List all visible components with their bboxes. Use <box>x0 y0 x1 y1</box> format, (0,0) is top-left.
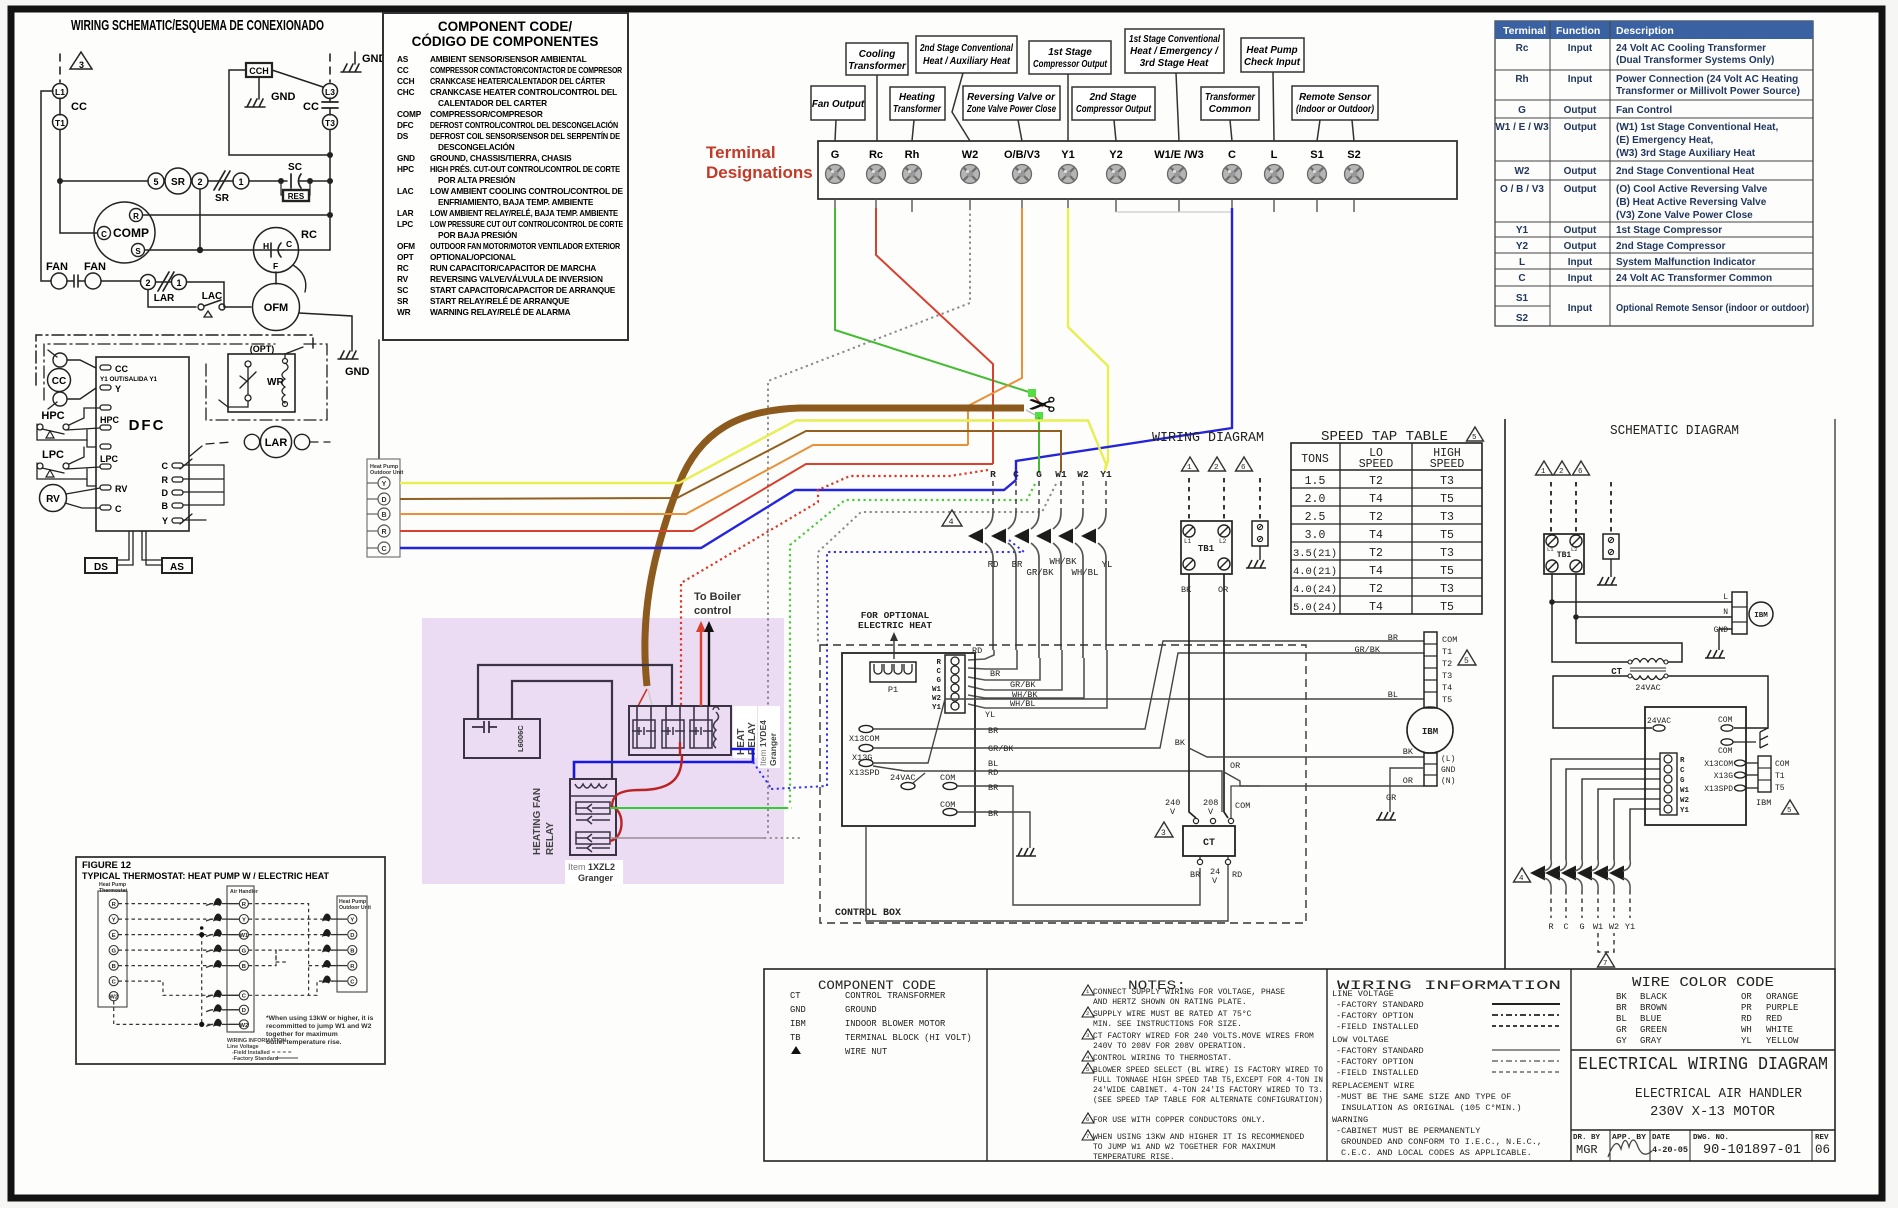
svg-text:RD: RD <box>972 646 982 656</box>
svg-text:B: B <box>242 964 246 970</box>
svg-text:Output: Output <box>1564 105 1597 116</box>
svg-text:W2: W2 <box>1609 922 1619 932</box>
svg-text:FIGURE 12: FIGURE 12 <box>82 860 131 871</box>
svg-text:COMPRESSOR/COMPRESOR: COMPRESSOR/COMPRESOR <box>430 109 543 119</box>
svg-text:Compressor Output: Compressor Output <box>1076 104 1152 115</box>
svg-text:together for maximum: together for maximum <box>266 1031 338 1038</box>
LAR contact 2 <box>141 275 156 290</box>
svg-text:BR: BR <box>1012 560 1023 570</box>
svg-text:OR: OR <box>1218 585 1228 595</box>
s pin W2 <box>1664 795 1672 803</box>
table outer border <box>1495 21 1813 326</box>
svg-text:-MUST BE THE SAME SIZE AND TYP: -MUST BE THE SAME SIZE AND TYPE OF <box>1336 1092 1511 1102</box>
svg-text:Y: Y <box>112 918 116 924</box>
svg-text:6: 6 <box>1578 468 1583 476</box>
svg-text:BLUE: BLUE <box>1640 1014 1662 1024</box>
svg-text:BLACK: BLACK <box>1640 992 1668 1002</box>
svg-text:CT: CT <box>790 991 801 1001</box>
svg-text:RD: RD <box>1741 1014 1752 1024</box>
wire nut C <box>991 512 1016 650</box>
dash-dot boundary outer <box>36 335 313 385</box>
svg-text:T3: T3 <box>1440 475 1454 488</box>
dashed feed sL2 <box>1575 482 1577 533</box>
svg-text:T1: T1 <box>55 118 65 128</box>
junction trunk CCH <box>327 152 333 158</box>
bottom table outer border <box>764 969 1835 1161</box>
control ground <box>1016 848 1036 856</box>
green wire from fan relay <box>610 807 786 809</box>
CCH left loop wire <box>229 70 330 155</box>
heat relay pins <box>637 706 708 720</box>
svg-text:Remote Sensor: Remote Sensor <box>1299 92 1372 103</box>
svg-text:RV: RV <box>397 274 409 284</box>
BK feed line <box>1189 574 1196 818</box>
svg-text:COM: COM <box>940 773 955 783</box>
HPOU terminal D <box>378 493 390 505</box>
svg-text:YELLOW: YELLOW <box>1766 1036 1799 1046</box>
dashed diagonal from C pin <box>190 446 202 456</box>
svg-text:Transformer: Transformer <box>848 61 907 72</box>
WR contact <box>245 361 251 367</box>
svg-text:T2: T2 <box>1369 547 1383 560</box>
figure 12 outer box <box>76 857 385 1064</box>
svg-text:T5: T5 <box>1442 695 1452 705</box>
svg-text:WR: WR <box>397 307 411 317</box>
svg-text:1st Stage Conventional: 1st Stage Conventional <box>1129 34 1220 45</box>
CCH ground <box>245 99 265 107</box>
svg-text:REV: REV <box>1815 1134 1829 1142</box>
DFC pin hpc1 <box>100 405 111 410</box>
svg-text:CT FACTORY WIRED FOR 240 VOLTS: CT FACTORY WIRED FOR 240 VOLTS.MOVE WIRE… <box>1093 1032 1314 1041</box>
svg-text:2: 2 <box>1214 464 1219 472</box>
svg-text:Input: Input <box>1568 257 1593 268</box>
svg-text:GND: GND <box>790 1005 806 1015</box>
dash-dot WR enclosure <box>206 344 327 420</box>
svg-text:LINE VOLTAGE: LINE VOLTAGE <box>1332 989 1394 999</box>
svg-text:WARNING: WARNING <box>1332 1115 1368 1125</box>
control board box s <box>1645 707 1746 825</box>
blue wire heat relay to fan relay <box>574 749 753 779</box>
lead 1st stage compressor <box>1067 74 1069 141</box>
svg-text:(OPT): (OPT) <box>250 344 275 354</box>
gray dotted continuation <box>764 837 800 839</box>
svg-text:E: E <box>112 933 116 939</box>
WR bottom wire <box>219 400 248 407</box>
svg-text:OR: OR <box>1403 776 1413 786</box>
svg-text:TB1: TB1 <box>1198 544 1215 554</box>
svg-text:WARNING RELAY/RELÉ DE ALARMA: WARNING RELAY/RELÉ DE ALARMA <box>430 307 571 317</box>
svg-text:H: H <box>263 241 269 251</box>
svg-text:Y: Y <box>162 516 168 526</box>
junction trunk SR row <box>327 178 333 184</box>
svg-text:X13SPD: X13SPD <box>1704 785 1733 794</box>
svg-text:WHITE: WHITE <box>1766 1025 1793 1035</box>
field wire gray dotted to W1 <box>818 484 1056 645</box>
note triangle 7 <box>1082 1130 1094 1140</box>
svg-text:BR: BR <box>990 669 1000 679</box>
IBM connector block s <box>1758 756 1771 792</box>
24VAC link <box>913 773 925 783</box>
chassis ground s <box>1760 728 1768 748</box>
svg-text:OUTDOOR FAN MOTOR/MOTOR VENTIL: OUTDOOR FAN MOTOR/MOTOR VENTILADOR EXTER… <box>430 241 620 251</box>
svg-text:CT: CT <box>1203 838 1215 849</box>
svg-text:T3: T3 <box>1440 583 1454 596</box>
HPOU terminal C <box>378 542 390 554</box>
svg-text:Check Input: Check Input <box>1244 57 1301 68</box>
screw Rc <box>867 165 886 184</box>
wire fan to LAR <box>101 280 140 282</box>
fig wire Y <box>119 918 214 920</box>
svg-text:R: R <box>1548 922 1553 932</box>
sTB1 screw b1 <box>1546 560 1558 572</box>
s ground block <box>1603 534 1619 559</box>
line voltage option sample <box>1492 1014 1560 1016</box>
terminal strip <box>818 141 1457 199</box>
svg-text:N: N <box>1723 608 1728 617</box>
svg-text:BK: BK <box>1175 738 1186 748</box>
fan relay coil arcs <box>575 784 607 788</box>
line L <box>1552 574 1732 602</box>
svg-text:D: D <box>381 497 386 504</box>
svg-text:V: V <box>1212 876 1218 886</box>
lead 2nd stage compressor <box>1114 120 1116 141</box>
svg-text:DATE: DATE <box>1652 1134 1671 1142</box>
svg-text:RC: RC <box>301 229 317 241</box>
svg-text:CCH: CCH <box>397 76 415 86</box>
svg-text:Fan Output: Fan Output <box>812 99 865 110</box>
warning triangle 6 <box>1236 457 1253 471</box>
svg-text:RUN CAPACITOR/CAPACITOR DE MAR: RUN CAPACITOR/CAPACITOR DE MARCHA <box>430 263 596 273</box>
warning triangle 5 <box>1458 650 1476 665</box>
svg-text:WIRING SCHEMATIC/ESQUEMA DE CO: WIRING SCHEMATIC/ESQUEMA DE CONEXIONADO <box>71 18 324 34</box>
thermostat lead R <box>992 481 994 512</box>
svg-text:(Indoor or Outdoor): (Indoor or Outdoor) <box>1296 104 1374 115</box>
svg-text:COMPONENT CODE/: COMPONENT CODE/ <box>438 19 573 34</box>
svg-text:R: R <box>990 469 996 480</box>
svg-text:Heat / Auxiliary Heat: Heat / Auxiliary Heat <box>923 56 1011 67</box>
WR top wire <box>285 347 303 358</box>
X13G oval <box>859 744 873 751</box>
svg-text:Item 1YDE4: Item 1YDE4 <box>758 720 768 766</box>
dashed tstat to AH wires <box>114 904 333 1025</box>
svg-text:BR: BR <box>1190 870 1200 880</box>
svg-text:Fan Control: Fan Control <box>1616 105 1672 116</box>
CC aux contact top <box>53 353 67 367</box>
title block info row border <box>1571 1129 1835 1131</box>
wire red HPOU R to R point <box>400 464 993 531</box>
low voltage option sample <box>1492 1060 1560 1062</box>
screw W1/E/W3 <box>1168 165 1187 184</box>
svg-text:COM: COM <box>1235 801 1250 811</box>
svg-text:DEFROST COIL SENSOR/SENSOR DEL: DEFROST COIL SENSOR/SENSOR DEL SERPENTÍN… <box>430 131 621 141</box>
screw S2 <box>1345 165 1364 184</box>
svg-text:ELECTRICAL WIRING DIAGRAM: ELECTRICAL WIRING DIAGRAM <box>1578 1055 1828 1075</box>
X13G wire GRBK <box>873 653 1424 748</box>
svg-text:B: B <box>350 949 354 955</box>
svg-text:System Malfunction Indicator: System Malfunction Indicator <box>1616 257 1756 268</box>
svg-text:Terminal: Terminal <box>706 143 776 162</box>
svg-text:F: F <box>273 261 278 271</box>
svg-text:Output: Output <box>1564 166 1597 177</box>
heating fan relay box <box>570 779 616 855</box>
svg-text:HPC: HPC <box>41 410 64 422</box>
red hook on fan relay <box>610 807 622 841</box>
svg-text:OR: OR <box>1230 761 1240 771</box>
svg-text:B: B <box>162 501 169 511</box>
svg-text:LOW AMBIENT COOLING CONTROL/CO: LOW AMBIENT COOLING CONTROL/CONTROL DE <box>430 186 624 196</box>
low voltage standard sample <box>1492 1049 1560 1051</box>
wire RC to trunk <box>283 249 330 251</box>
svg-text:T3: T3 <box>1440 547 1454 560</box>
svg-text:W2: W2 <box>240 1023 249 1029</box>
COM2 chassis wire <box>1733 741 1756 743</box>
svg-text:WH/BL: WH/BL <box>1071 568 1098 578</box>
junction trunk R <box>327 212 333 218</box>
svg-text:(W1) 1st Stage Conventional He: (W1) 1st Stage Conventional Heat, <box>1616 122 1778 133</box>
s pin C <box>1664 765 1672 773</box>
strip pin C <box>951 666 959 674</box>
fig junction dots <box>199 932 204 937</box>
fig wire R <box>119 903 214 905</box>
svg-text:recommitted to jump W1 and W2: recommitted to jump W1 and W2 <box>266 1023 372 1030</box>
svg-text:R: R <box>133 212 139 221</box>
lead remote sensor S2 <box>1352 120 1354 141</box>
svg-text:SR: SR <box>171 177 186 188</box>
svg-text:4.0(24): 4.0(24) <box>1293 584 1337 596</box>
low voltage field sample <box>1492 1071 1560 1073</box>
svg-text:MIN. SEE INSTRUCTIONS FOR SIZE: MIN. SEE INSTRUCTIONS FOR SIZE. <box>1093 1020 1242 1029</box>
label box: Fan Output <box>811 86 865 120</box>
svg-text:WHEN USING 13KW AND HIGHER IT: WHEN USING 13KW AND HIGHER IT IS RECOMME… <box>1093 1133 1304 1142</box>
IBM motor s <box>1749 602 1773 626</box>
TB1 screw L1 <box>1183 525 1195 537</box>
svg-text:CC: CC <box>115 364 128 374</box>
strip pin Y1 <box>951 702 959 710</box>
thermostat terminal strip <box>945 655 965 713</box>
screw L <box>1265 165 1284 184</box>
electric heat arrow <box>893 636 895 659</box>
svg-text:HPC: HPC <box>100 415 120 425</box>
DFC pin lpc1 <box>100 444 111 449</box>
svg-text:L1: L1 <box>1547 546 1554 553</box>
svg-text:DS: DS <box>397 131 409 141</box>
svg-text:HPC: HPC <box>397 164 414 174</box>
svg-text:(E) Emergency Heat,: (E) Emergency Heat, <box>1616 135 1713 146</box>
svg-text:24'WIDE CABINET. 4-TON 24'IS F: 24'WIDE CABINET. 4-TON 24'IS FACTORY WIR… <box>1093 1086 1323 1095</box>
screw W2 <box>961 165 980 184</box>
svg-text:BK: BK <box>1616 992 1627 1002</box>
s pin Y1 <box>1664 805 1672 813</box>
svg-text:FAN: FAN <box>46 261 68 273</box>
svg-text:2: 2 <box>145 278 150 288</box>
drop YL <box>968 650 1107 708</box>
svg-text:DS: DS <box>94 562 108 573</box>
thermostat lead W2 <box>1082 481 1084 512</box>
TB1 screw bottom left <box>1183 558 1195 570</box>
svg-text:(O) Cool Active Reversing Valv: (O) Cool Active Reversing Valve <box>1616 184 1768 195</box>
COM oval s1 <box>1721 725 1733 731</box>
green node lower <box>1035 412 1043 420</box>
wire loop outer <box>478 665 672 719</box>
svg-text:2.5: 2.5 <box>1305 511 1326 524</box>
svg-text:POR ALTA PRESIÓN: POR ALTA PRESIÓN <box>438 174 515 185</box>
drop WHBK <box>968 650 1062 690</box>
svg-text:3.0: 3.0 <box>1305 529 1326 542</box>
wire orange HPOU B to O/B/V3 <box>400 445 968 514</box>
svg-text:W2: W2 <box>962 149 979 161</box>
label box: 1st Stage Conventional Heat <box>1125 29 1224 73</box>
svg-text:WH/BL: WH/BL <box>1010 699 1036 709</box>
lead remote sensor S1 <box>1317 120 1320 141</box>
svg-text:Y: Y <box>382 481 387 488</box>
COM2 wire BR to ground <box>957 812 1030 848</box>
wire R to trunk <box>143 214 330 216</box>
thermostat lead C <box>1015 481 1017 512</box>
svg-text:T4: T4 <box>1369 565 1383 578</box>
wire LAR right <box>187 282 224 307</box>
svg-text:RED: RED <box>1766 1014 1782 1024</box>
s wire G <box>1582 779 1660 860</box>
svg-text:DFC: DFC <box>397 120 414 130</box>
svg-text:V: V <box>1208 807 1214 817</box>
svg-text:5: 5 <box>1086 1066 1089 1073</box>
svg-text:SR: SR <box>215 193 230 204</box>
svg-text:LAR: LAR <box>397 208 414 218</box>
drop GRBK <box>968 658 1040 680</box>
svg-text:5: 5 <box>1472 434 1477 442</box>
svg-text:X13G: X13G <box>1714 772 1733 781</box>
CT bottom pins <box>1197 859 1202 864</box>
purple highlight region <box>422 618 784 884</box>
svg-text:C: C <box>162 461 169 471</box>
label box: Cooling Transformer <box>846 43 908 75</box>
wire W2 gray dotted from strip <box>768 208 970 836</box>
wire G green from strip <box>835 208 1032 393</box>
fig AH Y to HPOU <box>249 918 333 920</box>
ground block symbol <box>1246 560 1266 568</box>
svg-text:(SEE SPEED TAP TABLE FOR ALTER: (SEE SPEED TAP TABLE FOR ALTERNATE CONFI… <box>1093 1096 1323 1105</box>
terminal T3 <box>323 115 338 130</box>
svg-text:GND: GND <box>397 153 415 163</box>
svg-text:RD: RD <box>988 768 998 778</box>
svg-text:RD: RD <box>988 560 999 570</box>
sTB1 screw b2 <box>1570 560 1582 572</box>
svg-text:AS: AS <box>397 54 409 64</box>
control box dashed outline <box>820 645 1306 923</box>
svg-text:06: 06 <box>1815 1143 1830 1157</box>
svg-text:SUPPLY WIRE MUST BE RATED AT 7: SUPPLY WIRE MUST BE RATED AT 75°C <box>1093 1010 1252 1019</box>
s ground symbol <box>1597 577 1617 585</box>
svg-text:T5: T5 <box>1440 565 1454 578</box>
svg-text:CC: CC <box>397 65 409 75</box>
svg-text:DFC: DFC <box>129 417 166 434</box>
svg-text:24VAC: 24VAC <box>890 773 916 783</box>
strip pin W1 <box>951 684 959 692</box>
svg-text:CONNECT SUPPLY WIRING FOR VOLT: CONNECT SUPPLY WIRING FOR VOLTAGE, PHASE <box>1093 988 1285 997</box>
svg-text:WIRE NUT: WIRE NUT <box>845 1047 887 1057</box>
svg-text:R: R <box>381 529 386 536</box>
OR feed line <box>1224 574 1228 818</box>
svg-text:5: 5 <box>1464 657 1469 666</box>
thermostat block <box>98 891 127 1007</box>
svg-text:Rc: Rc <box>1516 43 1529 54</box>
svg-text:Y1: Y1 <box>1680 807 1690 815</box>
svg-text:X13G: X13G <box>852 753 872 763</box>
svg-text:Y1: Y1 <box>1625 922 1635 932</box>
svg-text:1st Stage Compressor: 1st Stage Compressor <box>1616 225 1722 236</box>
svg-text:LAR: LAR <box>154 293 175 304</box>
svg-text:Y2: Y2 <box>1109 149 1122 161</box>
wire LAC to OFM <box>225 306 251 308</box>
heat relay coil <box>714 712 719 748</box>
COM oval 1 <box>943 782 957 789</box>
pin Y slash <box>180 514 192 524</box>
wire G green below scissors <box>1038 417 1040 473</box>
svg-text:G: G <box>1680 777 1685 785</box>
field wire blue dotted <box>771 540 1024 789</box>
lead drops to control box <box>968 650 1107 708</box>
svg-text:BK: BK <box>1403 747 1414 757</box>
dash-dot boundary inner <box>44 344 275 400</box>
wire L1-T1 <box>59 98 61 115</box>
wire O/B/V3 orange from strip <box>968 208 1022 445</box>
color code bottom border <box>1571 1049 1835 1051</box>
CC contact ticks <box>48 350 57 357</box>
terminal L1 <box>53 84 68 99</box>
defrost control DFC box <box>96 357 189 531</box>
svg-text:DR. BY: DR. BY <box>1573 1134 1601 1142</box>
COM1 wire BR <box>957 786 1200 905</box>
HPOU terminal B <box>378 508 390 520</box>
svg-text:BL: BL <box>1616 1014 1627 1024</box>
note triangle 1 <box>1082 985 1094 995</box>
svg-text:GR/BK: GR/BK <box>1026 568 1054 578</box>
svg-text:T4: T4 <box>1442 683 1452 693</box>
svg-text:Cooling: Cooling <box>859 49 895 60</box>
svg-text:COM: COM <box>1718 747 1733 756</box>
screw G <box>826 165 845 184</box>
field wire red dotted <box>681 470 988 706</box>
label box: Remote Sensor <box>1292 86 1378 120</box>
compressor COMP <box>94 202 155 263</box>
svg-text:5.0(24): 5.0(24) <box>1293 602 1337 614</box>
svg-text:O / B / V3: O / B / V3 <box>1500 184 1544 195</box>
RES branch wires <box>281 181 283 195</box>
X13SPD oval <box>859 759 873 766</box>
fig wire G <box>119 949 214 951</box>
drop WHBL <box>968 658 1084 698</box>
CCH box <box>246 63 272 77</box>
svg-text:POR BAJA PRESIÓN: POR BAJA PRESIÓN <box>438 229 517 240</box>
control board solid box <box>842 653 975 826</box>
svg-text:RES: RES <box>288 192 305 201</box>
thermostat lead G <box>1038 481 1040 512</box>
SR contact 1 <box>233 173 249 189</box>
svg-text:Heat Pump: Heat Pump <box>1246 45 1297 56</box>
CCH ground stem <box>258 77 260 99</box>
svg-text:Heating: Heating <box>899 92 935 103</box>
warning triangle s4 <box>1514 868 1531 882</box>
svg-text:Input: Input <box>1568 303 1593 314</box>
svg-text:D: D <box>162 488 169 498</box>
svg-text:Output: Output <box>1564 241 1597 252</box>
svg-text:COMP: COMP <box>113 226 149 240</box>
fig nut connect lines AH <box>206 904 239 1027</box>
svg-text:D: D <box>242 1008 246 1014</box>
svg-text:C: C <box>101 230 107 239</box>
fig wire W2 drop <box>114 1001 213 1024</box>
fig wire nuts at air handler <box>213 898 222 1027</box>
